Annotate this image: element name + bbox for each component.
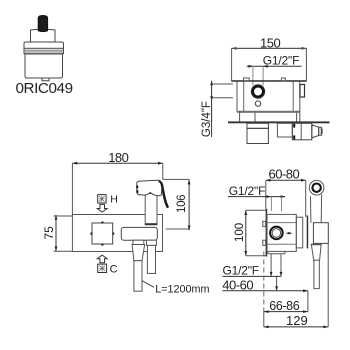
- shaft band: [145, 223, 157, 225]
- dimension 129: [264, 244, 328, 329]
- dimension G3/4"F: [210, 81, 233, 137]
- handle block below wall: [247, 123, 268, 143]
- supply pipes: [270, 197, 272, 211]
- screw hole: [255, 101, 260, 106]
- hose connector: [132, 245, 145, 261]
- svg-text:G1/2"F: G1/2"F: [263, 54, 299, 68]
- handle square: [92, 223, 113, 244]
- finished wall bar: [307, 215, 309, 248]
- svg-text:C: C: [110, 264, 118, 276]
- side view diagram: [222, 166, 328, 328]
- wall plate front: [72, 215, 162, 252]
- dimension leader G1/2 port: [247, 65, 302, 68]
- front view diagram: [42, 150, 210, 295]
- handle ticks: [91, 222, 113, 244]
- shaft lower tube: [147, 245, 155, 273]
- hose connector side: [311, 244, 322, 260]
- spray head top circle: [309, 180, 324, 195]
- extension line left: [71, 163, 73, 214]
- dimension 150: [232, 47, 307, 50]
- flow arrow right: [286, 232, 292, 235]
- dimension 180: [72, 162, 162, 165]
- svg-text:0RIC049: 0RIC049: [16, 80, 73, 97]
- outlet step under body: [268, 253, 285, 255]
- svg-text:100: 100: [234, 223, 246, 242]
- spray shaft: [145, 194, 157, 225]
- svg-text:G3/4"F: G3/4"F: [201, 101, 213, 137]
- outlet base rect: [277, 123, 292, 137]
- dimension 60-80: [266, 179, 306, 182]
- svg-text:75: 75: [42, 226, 56, 240]
- cartridge body: [25, 54, 63, 78]
- extension line right: [162, 163, 164, 179]
- leader 40-60: [223, 290, 308, 292]
- dimension 100: [244, 210, 266, 256]
- cartridge 0RIC049 icon: [24, 16, 64, 81]
- cold flow arrow: [97, 255, 107, 263]
- outlet elbow body: [292, 123, 312, 140]
- leader G1/2 upper: [228, 195, 285, 198]
- hot flow arrow: [97, 204, 107, 212]
- svg-text:L=1200mm: L=1200mm: [155, 284, 209, 296]
- port circle G1/2: [251, 85, 264, 98]
- svg-text:40-60: 40-60: [222, 277, 253, 292]
- fixing tab right: [281, 78, 285, 81]
- svg-text:H: H: [110, 194, 118, 206]
- hot icon: [98, 195, 106, 203]
- cartridge circle side: [270, 227, 283, 240]
- mixer body top view: [237, 81, 300, 111]
- fixing tab left: [244, 78, 250, 81]
- head face marks: [136, 186, 138, 193]
- spray handle tube side: [311, 194, 322, 222]
- wall plate edge: [266, 209, 268, 257]
- dimension 66-86: [264, 291, 308, 313]
- outlet port lines: [271, 254, 281, 276]
- cartridge bottom nub: [42, 78, 49, 81]
- spray head front: [137, 180, 162, 196]
- plate bottom thick line: [232, 80, 307, 82]
- leader G1/2 lower: [223, 275, 282, 277]
- cartridge upper cylinder: [31, 29, 56, 42]
- spray lever: [158, 181, 169, 209]
- hose front: [134, 261, 142, 292]
- svg-text:60-80: 60-80: [269, 166, 300, 181]
- wall bar: [228, 121, 330, 123]
- shaft lower cap: [147, 240, 157, 245]
- svg-text:106: 106: [176, 195, 188, 213]
- wall box plate: [232, 48, 307, 81]
- svg-text:129: 129: [286, 313, 308, 328]
- svg-text:G1/2"F: G1/2"F: [229, 184, 265, 198]
- circlip marks: [293, 124, 295, 128]
- svg-text:66-86: 66-86: [269, 299, 299, 313]
- hose nut: [133, 240, 144, 244]
- spray holder: [121, 227, 157, 240]
- cartridge ribbed ring: [24, 48, 64, 53]
- body lower steps: [239, 111, 241, 121]
- extension lines to port: [252, 66, 254, 85]
- svg-text:180: 180: [108, 150, 128, 165]
- top view diagram: [201, 35, 330, 143]
- cartridge stem: [38, 16, 47, 32]
- body side view: [267, 214, 296, 251]
- dimension 106: [163, 179, 191, 230]
- plate tab lower: [263, 240, 266, 245]
- cold icon: [98, 264, 107, 272]
- hose nipple end: [319, 127, 323, 135]
- hose side: [314, 260, 319, 288]
- body right box: [296, 217, 302, 248]
- hose leader: [142, 281, 154, 288]
- svg-text:G1/2"F: G1/2"F: [223, 263, 259, 277]
- holder block side: [313, 223, 328, 244]
- dimension 75: [54, 215, 74, 251]
- cartridge flange: [24, 42, 64, 48]
- hose nipple nose: [312, 125, 319, 138]
- plate tab upper: [263, 221, 266, 226]
- centerline dashed: [263, 252, 265, 312]
- side tab right: [300, 85, 305, 98]
